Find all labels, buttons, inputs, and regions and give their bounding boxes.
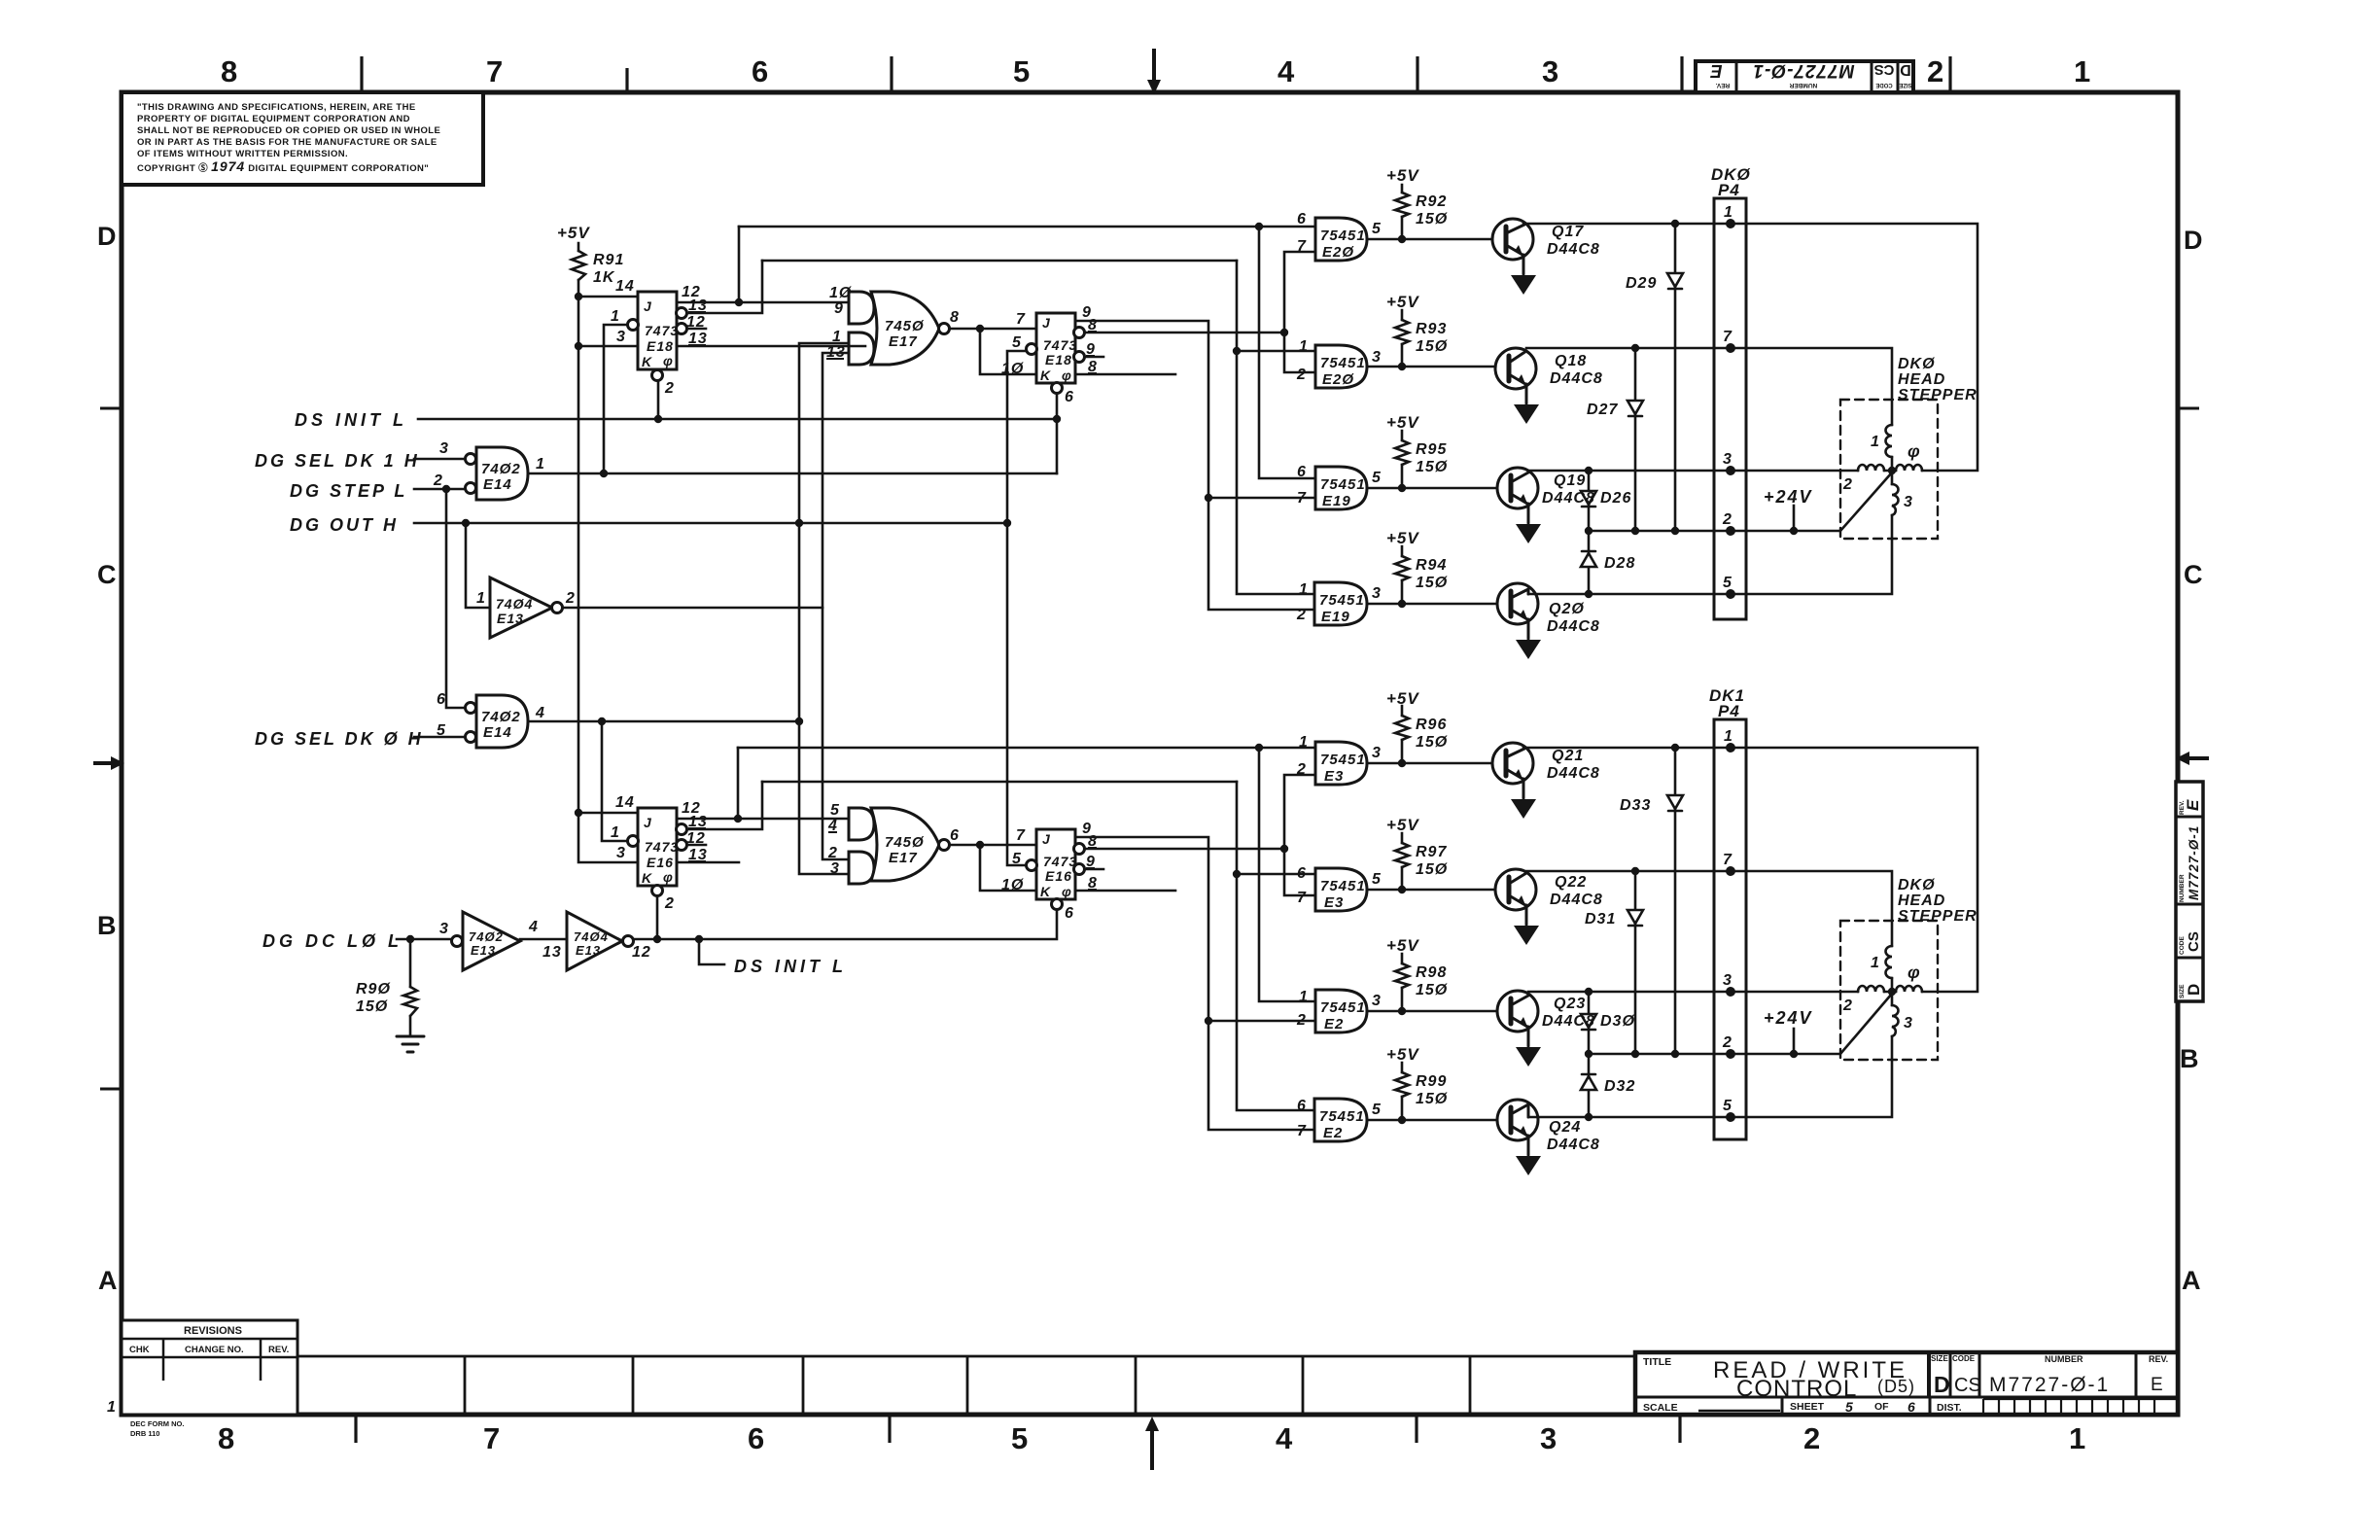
svg-text:15Ø: 15Ø: [1416, 338, 1448, 355]
svg-text:CODE: CODE: [2179, 936, 2186, 955]
svg-text:3: 3: [1372, 585, 1382, 602]
svg-text:R95: R95: [1416, 441, 1447, 458]
resistor R94: [1395, 556, 1409, 580]
svg-text:J: J: [1042, 831, 1051, 847]
wire E20b output to Q18 base: [1367, 366, 1495, 368]
svg-text:2: 2: [565, 590, 576, 607]
svg-text:R92: R92: [1416, 193, 1447, 210]
diode D27: [1627, 401, 1643, 416]
wire DG SEL DK 0 H input: [414, 736, 465, 739]
svg-text:D44C8: D44C8: [1547, 765, 1600, 782]
svg-text:R99: R99: [1416, 1073, 1447, 1090]
wire DG DC L0 L row with inverters to E16 clears: [397, 891, 1057, 939]
svg-text:REV.: REV.: [1716, 82, 1731, 88]
svg-text:CHANGE NO.: CHANGE NO.: [185, 1345, 244, 1355]
svg-text:C: C: [97, 560, 117, 589]
svg-text:M7727-Ø-1: M7727-Ø-1: [1989, 1374, 2110, 1396]
svg-text:3: 3: [439, 440, 449, 457]
wire E16b pin 9 to E2 gates: [1074, 837, 1315, 1130]
pin 8bar E18b: [1088, 317, 1098, 333]
svg-text:D44C8: D44C8: [1547, 618, 1600, 635]
svg-text:1: 1: [1724, 728, 1733, 745]
svg-text:E13: E13: [576, 943, 601, 958]
svg-text:E18: E18: [1045, 352, 1072, 367]
bottom margin strip boxes: [297, 1356, 1635, 1415]
svg-text:1: 1: [1299, 734, 1309, 751]
svg-text:R97: R97: [1416, 844, 1447, 860]
svg-text:5: 5: [1372, 1102, 1382, 1118]
svg-text:1Ø: 1Ø: [1001, 877, 1024, 893]
wire R99 chain: [1401, 1063, 1404, 1120]
svg-text:7473: 7473: [645, 839, 679, 855]
flip-flop E16 second half: [1027, 829, 1085, 910]
svg-text:3: 3: [616, 329, 626, 345]
svg-text:6: 6: [1297, 865, 1307, 882]
svg-text:2: 2: [1803, 1421, 1820, 1455]
svg-text:+5V: +5V: [1386, 413, 1419, 432]
wire DK0 pin 2 common row with stepper return diagonal: [1589, 472, 1892, 531]
svg-text:3: 3: [1540, 1421, 1557, 1455]
svg-text:75451: 75451: [1319, 592, 1365, 609]
wire E14 pin1 output to E18 clock: [528, 325, 1057, 473]
svg-text:P4: P4: [1718, 702, 1740, 720]
svg-text:REVISIONS: REVISIONS: [184, 1325, 242, 1337]
wire Q17 collector row to DK0 pin 1: [1523, 224, 1977, 471]
svg-text:SHEET: SHEET: [1790, 1401, 1825, 1413]
svg-text:5: 5: [1013, 54, 1030, 88]
svg-text:14: 14: [615, 794, 635, 811]
coil phi upper: [1896, 465, 1922, 471]
svg-text:Q2Ø: Q2Ø: [1549, 601, 1585, 617]
svg-text:7: 7: [1297, 890, 1307, 906]
wire E17 output to E18 second-half J/K: [944, 329, 1036, 374]
connector DK1 P4: [1714, 719, 1746, 1139]
svg-text:φ: φ: [1062, 884, 1072, 899]
and-or gate E17 upper: [849, 292, 950, 365]
svg-text:CS: CS: [1874, 61, 1895, 78]
svg-text:D: D: [1900, 61, 1911, 78]
wire diode D26 D28 vertical: [1588, 471, 1591, 594]
svg-text:3: 3: [1723, 972, 1732, 989]
diode D29: [1667, 273, 1683, 289]
svg-text:SIZE: SIZE: [1899, 82, 1911, 87]
svg-text:D: D: [97, 222, 117, 251]
wire diode D30 D32 vertical: [1588, 992, 1591, 1117]
wire E16 Q output to E17 pin 4: [677, 748, 849, 819]
svg-text:DG SEL DK 1 H: DG SEL DK 1 H: [255, 451, 420, 471]
ground Q23: [1516, 1047, 1541, 1067]
wire pull-up vertical to E18 K and E16 J/K: [578, 297, 638, 862]
flip-flop E18 first half: [628, 292, 687, 381]
wire DK1 pin 2 common row with stepper return diagonal: [1589, 994, 1892, 1054]
pin 13bar E17: [826, 344, 846, 361]
svg-text:φ: φ: [663, 869, 674, 885]
svg-text:4: 4: [1277, 54, 1295, 88]
svg-text:3: 3: [1372, 993, 1382, 1009]
svg-text:CONTROL: CONTROL: [1736, 1376, 1857, 1402]
bottom zone numbers: [218, 1421, 2085, 1455]
svg-text:K: K: [1040, 884, 1051, 899]
wire E16 bottom output: [677, 861, 739, 864]
svg-text:1: 1: [611, 824, 620, 841]
wire DS INIT L tag lower: [699, 939, 724, 964]
svg-text:75451: 75451: [1320, 476, 1366, 493]
svg-text:HEAD: HEAD: [1898, 371, 1945, 388]
head stepper DK0 dashed box: [1840, 400, 1938, 539]
svg-text:D3Ø: D3Ø: [1600, 1013, 1635, 1030]
ground Q22: [1514, 926, 1539, 945]
inverter E13 upper: [490, 577, 563, 638]
svg-text:NUMBER: NUMBER: [2179, 874, 2186, 902]
svg-text:2: 2: [1296, 367, 1307, 383]
svg-text:D44C8: D44C8: [1547, 1137, 1600, 1153]
svg-text:1: 1: [1871, 955, 1880, 971]
svg-text:E3: E3: [1324, 894, 1344, 911]
svg-text:DIST.: DIST.: [1937, 1402, 1962, 1414]
svg-text:E14: E14: [483, 476, 512, 493]
left border ticks: [100, 408, 122, 1089]
svg-text:6: 6: [1297, 464, 1307, 480]
SCHEMATIC-COMPONENTS: [397, 192, 1938, 1175]
wire R96 chain: [1401, 706, 1404, 763]
wire diode D31 vertical: [1634, 871, 1637, 1054]
svg-text:D31: D31: [1585, 911, 1616, 927]
left centering arrow: [93, 756, 124, 770]
svg-text:STEPPER: STEPPER: [1898, 387, 1977, 403]
transistor Q22: [1495, 869, 1536, 925]
svg-text:E2: E2: [1324, 1016, 1344, 1032]
sheet border frame: [122, 92, 2178, 1415]
wire Qbar trunk to E20 pin1 and E19 pin1: [1237, 261, 1315, 594]
svg-text:2: 2: [1296, 1012, 1307, 1029]
svg-text:DRB 110: DRB 110: [130, 1429, 159, 1438]
svg-text:15Ø: 15Ø: [1416, 575, 1448, 591]
wire E18 Q-bar to second trunk: [686, 261, 762, 313]
diode D32: [1581, 1074, 1596, 1090]
svg-text:6: 6: [752, 54, 768, 88]
wire R92 chain: [1401, 185, 1404, 239]
svg-text:J: J: [1042, 315, 1051, 331]
svg-text:TITLE: TITLE: [1643, 1356, 1671, 1368]
transistor Q17: [1492, 219, 1533, 274]
wire Q23 collector row to DK1 pin 3 and coil 2: [1528, 991, 1858, 994]
svg-text:1: 1: [611, 308, 620, 325]
svg-text:7: 7: [486, 54, 503, 88]
ground Q21: [1511, 799, 1536, 819]
svg-text:15Ø: 15Ø: [1416, 1091, 1448, 1107]
svg-text:B: B: [2180, 1044, 2199, 1073]
coil phi lower: [1896, 986, 1922, 992]
svg-text:1: 1: [1299, 581, 1309, 598]
wire Q19 collector row to DK0 pin 3 and coil 2: [1528, 470, 1858, 472]
svg-text:7: 7: [1723, 329, 1732, 345]
svg-text:D: D: [2185, 984, 2203, 996]
driver gate E20 second: [1315, 345, 1367, 388]
svg-text:14: 14: [615, 278, 635, 295]
svg-text:D44C8: D44C8: [1542, 1013, 1595, 1030]
svg-text:4: 4: [535, 705, 545, 721]
coil 3 lower: [1892, 1005, 1899, 1036]
wire R95 chain: [1401, 431, 1404, 488]
svg-text:φ: φ: [663, 353, 674, 368]
wire E19a output to Q19 base: [1367, 487, 1497, 490]
right centering arrow: [2176, 752, 2209, 765]
svg-text:7: 7: [1723, 852, 1732, 868]
pin 9bar E16b: [1086, 854, 1096, 870]
nor gate E14 second: [466, 695, 529, 748]
svg-text:J: J: [644, 815, 652, 830]
svg-text:STEPPER: STEPPER: [1898, 908, 1977, 925]
SCHEMATIC-TEXT: [255, 165, 1977, 1153]
bottom centering arrow: [1145, 1417, 1159, 1470]
resistor R98: [1395, 963, 1409, 988]
wire diode D29 vertical: [1674, 224, 1677, 531]
svg-text:D28: D28: [1604, 555, 1635, 572]
pin 13bar E16: [688, 814, 708, 830]
coil 3 upper: [1892, 484, 1899, 515]
svg-text:1: 1: [107, 1399, 117, 1416]
pin 9bar E18b: [1086, 341, 1096, 358]
svg-text:E14: E14: [483, 724, 512, 741]
wire Q18 collector row to DK0 pin 7 and coil 1: [1526, 348, 1892, 425]
nor gate E14 first: [466, 447, 529, 500]
svg-text:7: 7: [1016, 827, 1026, 844]
ground Q20: [1516, 640, 1541, 659]
svg-text:D33: D33: [1620, 797, 1651, 814]
svg-text:5: 5: [1372, 470, 1382, 486]
svg-text:3: 3: [1372, 745, 1382, 761]
svg-text:REV.: REV.: [2149, 1354, 2168, 1364]
inverter E13 lower second: [567, 912, 634, 970]
wire R94 chain: [1401, 546, 1404, 604]
svg-text:(D5): (D5): [1877, 1377, 1915, 1396]
transistor Q23: [1497, 991, 1538, 1046]
svg-text:E: E: [2184, 799, 2202, 811]
coil 2 lower: [1858, 986, 1884, 992]
svg-text:3: 3: [616, 845, 626, 861]
svg-text:R98: R98: [1416, 964, 1447, 981]
svg-text:DS INIT L: DS INIT L: [295, 410, 407, 430]
svg-text:5: 5: [437, 722, 446, 739]
svg-text:6: 6: [1297, 1098, 1307, 1114]
svg-text:+5V: +5V: [1386, 293, 1419, 311]
connector DK0 pin dots: [1726, 219, 1735, 599]
svg-text:E13: E13: [471, 943, 496, 958]
svg-text:1Ø: 1Ø: [1001, 361, 1024, 377]
svg-text:R96: R96: [1416, 717, 1447, 733]
svg-text:75451: 75451: [1319, 1108, 1365, 1125]
wire E18b stub: [1084, 356, 1103, 359]
svg-text:NUMBER: NUMBER: [1789, 82, 1817, 88]
svg-text:+5V: +5V: [1386, 1045, 1419, 1064]
diode D33: [1667, 795, 1683, 811]
svg-text:74Ø4: 74Ø4: [496, 596, 533, 612]
svg-text:R91: R91: [593, 252, 624, 268]
svg-text:1: 1: [536, 456, 545, 472]
svg-text:15Ø: 15Ø: [1416, 211, 1448, 227]
svg-text:E16: E16: [647, 855, 674, 870]
resistor R95: [1395, 440, 1409, 465]
svg-text:Q19: Q19: [1554, 472, 1586, 489]
svg-text:D: D: [2184, 226, 2203, 255]
svg-text:J: J: [644, 298, 652, 314]
coil 2 upper: [1858, 465, 1884, 471]
svg-text:D44C8: D44C8: [1542, 490, 1595, 507]
svg-text:7: 7: [1297, 490, 1307, 507]
right side vertical title strip: [2176, 782, 2203, 1001]
wire E16b pin 8 to E3 gates: [1084, 775, 1315, 895]
svg-text:OF: OF: [1874, 1401, 1889, 1413]
connector DK1 pin dots: [1726, 743, 1735, 1122]
svg-text:6: 6: [950, 827, 960, 844]
wire DG OUT H net: [414, 523, 1007, 608]
svg-text:74Ø2: 74Ø2: [469, 929, 504, 944]
svg-text:DG SEL DK Ø H: DG SEL DK Ø H: [255, 729, 424, 749]
ground Q19: [1516, 524, 1541, 543]
right zone letters: [2180, 226, 2203, 1295]
svg-text:7: 7: [1297, 238, 1307, 255]
wire E16b bottom output: [1074, 890, 1175, 892]
driver gate E19 second: [1314, 582, 1367, 625]
svg-text:DEC FORM NO.: DEC FORM NO.: [130, 1419, 184, 1428]
svg-text:3: 3: [1542, 54, 1558, 88]
wire +24V stub lower: [1793, 1029, 1796, 1054]
form number fine print: [130, 1419, 184, 1438]
wire diode D27 vertical: [1634, 348, 1637, 531]
svg-text:2: 2: [1927, 54, 1943, 88]
pin 8bar E18b bottom: [1088, 359, 1098, 375]
svg-text:Q21: Q21: [1552, 748, 1584, 764]
svg-text:+5V: +5V: [1386, 936, 1419, 955]
svg-text:+24V: +24V: [1764, 487, 1813, 507]
pin 13bar E18: [688, 297, 708, 314]
and-or gate E17 lower: [849, 808, 950, 884]
svg-text:Q24: Q24: [1549, 1119, 1581, 1136]
wire Q trunk to E19 pin 6: [1259, 227, 1315, 478]
svg-text:15Ø: 15Ø: [356, 998, 388, 1015]
svg-text:5: 5: [1372, 221, 1382, 237]
wire vertical DG OUT trunk to E17 pins: [799, 343, 849, 874]
svg-text:6: 6: [1065, 905, 1074, 922]
inverter E13 lower first: [452, 912, 521, 970]
svg-text:NUMBER: NUMBER: [2045, 1354, 2083, 1364]
svg-text:SIZE: SIZE: [1931, 1354, 1948, 1363]
svg-text:5: 5: [1845, 1399, 1854, 1415]
wire inverter E13 output net: [561, 607, 822, 610]
svg-text:1: 1: [832, 329, 842, 345]
svg-text:E18: E18: [647, 338, 674, 354]
wire diode D33 vertical: [1674, 748, 1677, 1054]
wire E18b pin 9 to E19 gates: [1074, 321, 1315, 610]
wire E18 stub 12: [686, 328, 706, 331]
svg-text:E16: E16: [1045, 868, 1072, 884]
svg-text:2: 2: [1722, 1034, 1732, 1051]
svg-text:R94: R94: [1416, 557, 1447, 574]
wire clock chain vertical E18b to E16b: [1007, 351, 1027, 865]
wire R93 chain: [1401, 310, 1404, 367]
top zone numbers: [221, 54, 2090, 88]
svg-text:1: 1: [1871, 434, 1880, 450]
wire E18 bottom output: [677, 345, 865, 348]
connector DK0 P4: [1714, 198, 1746, 619]
svg-text:D32: D32: [1604, 1078, 1635, 1095]
svg-text:+5V: +5V: [1386, 166, 1419, 185]
ground R90: [397, 1036, 424, 1052]
svg-text:D44C8: D44C8: [1547, 241, 1600, 258]
wire R90 chain to ground: [409, 939, 412, 1036]
wire vertical inverter trunk to E17 pins: [822, 353, 849, 859]
svg-text:3: 3: [1904, 1015, 1913, 1032]
left zone letters: [97, 222, 118, 1295]
svg-text:8: 8: [218, 1421, 234, 1455]
svg-text:7473: 7473: [1043, 854, 1077, 869]
svg-text:1: 1: [2069, 1421, 2085, 1455]
svg-text:4: 4: [528, 919, 539, 935]
wire E18b bottom output: [1074, 373, 1175, 376]
svg-text:D29: D29: [1626, 275, 1657, 292]
svg-text:2: 2: [433, 472, 443, 489]
svg-text:+5V: +5V: [1386, 689, 1419, 708]
svg-text:φ: φ: [1907, 441, 1921, 461]
wire Q22 collector row to DK1 pin 7 and coil 1: [1526, 871, 1892, 946]
wire E3b output to Q22 base: [1367, 889, 1495, 892]
svg-text:D: D: [1934, 1372, 1950, 1397]
pin 4bar E17 lower: [827, 818, 838, 834]
svg-text:4: 4: [1276, 1421, 1293, 1455]
svg-text:E3: E3: [1324, 768, 1344, 785]
svg-text:7: 7: [483, 1421, 500, 1455]
svg-text:SIZE: SIZE: [2179, 984, 2186, 998]
svg-text:B: B: [97, 911, 117, 940]
svg-text:E19: E19: [1321, 609, 1350, 625]
wire +5V R91 to E18 pin 14: [578, 243, 638, 297]
svg-text:5: 5: [1011, 1421, 1028, 1455]
svg-text:PROPERTY OF DIGITAL EQUIPMENT: PROPERTY OF DIGITAL EQUIPMENT CORPORATIO…: [137, 114, 410, 124]
wire top trunk to E20 pin 6: [739, 226, 1315, 228]
svg-text:6: 6: [1907, 1399, 1916, 1415]
wire R97 chain: [1401, 833, 1404, 890]
wire R98 chain: [1401, 954, 1404, 1011]
wire stepper coil joins lower: [1884, 978, 1896, 1005]
svg-text:P4: P4: [1718, 181, 1740, 199]
svg-text:Q23: Q23: [1554, 996, 1586, 1012]
svg-text:2: 2: [1842, 997, 1853, 1014]
svg-text:R93: R93: [1416, 321, 1447, 337]
svg-text:3: 3: [830, 860, 840, 877]
wire E14 pin4 output to E16 clock: [528, 721, 799, 841]
svg-text:7473: 7473: [645, 323, 679, 338]
svg-text:A: A: [98, 1266, 118, 1295]
svg-text:6: 6: [1297, 211, 1307, 227]
wire lower top trunk to E3 pin 1: [738, 747, 1315, 750]
svg-text:75451: 75451: [1320, 752, 1366, 768]
pin 12bar E16: [686, 830, 706, 847]
wire lower Qbar trunk to E3 pin 6 and E2 pin 6: [1237, 782, 1315, 1110]
svg-text:K: K: [642, 354, 652, 369]
svg-text:2: 2: [1722, 511, 1732, 528]
resistor R91: [572, 251, 585, 280]
top zone ticks: [362, 56, 1950, 92]
ground Q18: [1514, 404, 1539, 424]
top inverted title strip: [1696, 60, 1913, 92]
JUNCTION-DOTS: [406, 220, 1896, 1124]
svg-text:15Ø: 15Ø: [1416, 861, 1448, 878]
svg-text:1K: 1K: [593, 269, 615, 286]
svg-text:7473: 7473: [1043, 337, 1077, 353]
svg-text:5: 5: [1723, 1098, 1732, 1114]
resistor R97: [1395, 843, 1409, 867]
svg-text:R9Ø: R9Ø: [356, 981, 391, 997]
